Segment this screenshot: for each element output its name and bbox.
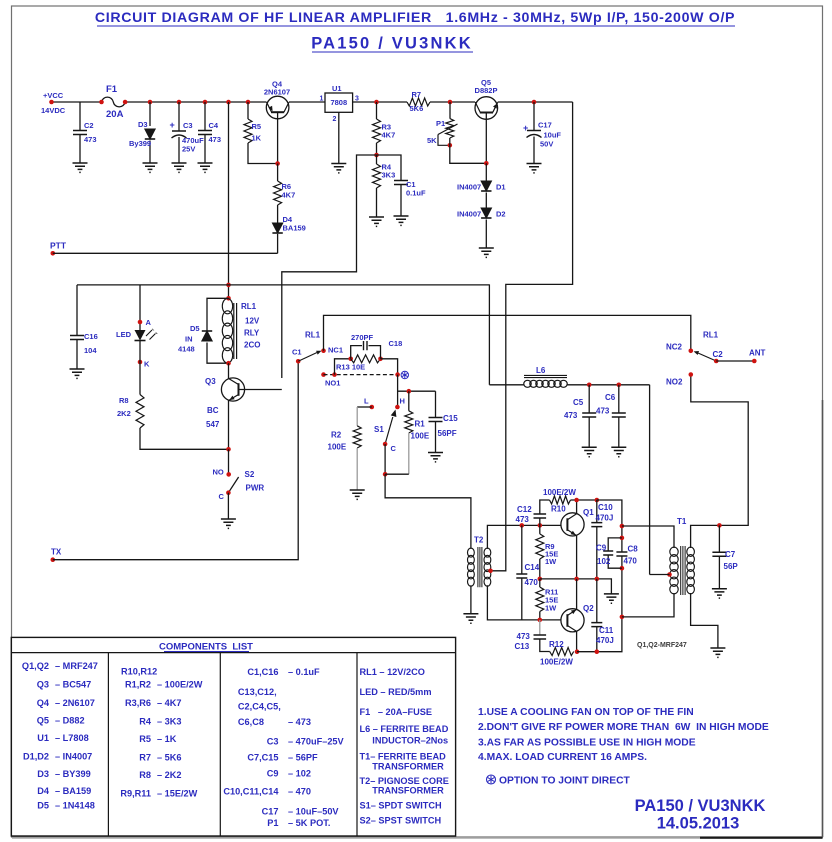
svg-text:4.MAX. LOAD CURRENT 16 AMPS.: 4.MAX. LOAD CURRENT 16 AMPS. — [478, 752, 647, 763]
wire to C5 — [588, 385, 590, 413]
wire C8 to T1 bottom branch — [621, 556, 623, 617]
wire rail to D3 — [149, 102, 151, 126]
svg-text:C7: C7 — [725, 550, 736, 559]
capacitor C15 — [429, 418, 443, 422]
diode D1 — [481, 181, 491, 191]
svg-text:T2: T2 — [474, 536, 484, 545]
table column 2 — [120, 666, 202, 798]
svg-text:56PF: 56PF — [438, 429, 457, 438]
wire to C7 — [718, 525, 720, 552]
junction — [203, 100, 208, 105]
svg-text:100E: 100E — [328, 443, 347, 452]
svg-text:D1: D1 — [496, 183, 506, 192]
wire R1 to bottom — [408, 433, 410, 474]
svg-text:100E: 100E — [411, 432, 430, 441]
wire L to R2 — [357, 406, 372, 408]
svg-text:470: 470 — [525, 578, 539, 587]
transistor Q3 — [221, 378, 244, 401]
svg-text:C13,C12,: C13,C12, — [238, 687, 277, 697]
wire C7 to ground — [718, 556, 720, 588]
svg-text:C: C — [219, 492, 225, 501]
svg-text:PA150 / VU3NKK: PA150 / VU3NKK — [311, 35, 473, 53]
svg-text:0.1uF: 0.1uF — [406, 189, 426, 198]
node C14 top — [520, 523, 525, 528]
node R13 right — [378, 357, 383, 362]
node Q4 base / R5 R6 — [275, 161, 280, 166]
potentiometer P1 — [438, 119, 458, 146]
wire T2 secondary bottom to Q2 base — [487, 585, 561, 620]
transistor Q2 — [561, 609, 584, 632]
wire R2 to ground — [356, 448, 358, 490]
svg-text:S2: S2 — [245, 470, 255, 479]
svg-text:C10,C11,C14: C10,C11,C14 — [223, 786, 279, 796]
svg-text:T2– PIGNOSE CORE: T2– PIGNOSE CORE — [360, 776, 449, 786]
wire Q3 emitter down — [228, 401, 230, 450]
capacitor C1 — [394, 181, 408, 185]
LED — [135, 328, 158, 340]
node mid rail C10/C11 — [595, 577, 600, 582]
svg-text:C3: C3 — [183, 121, 193, 130]
svg-text:By399: By399 — [129, 139, 151, 148]
node NO S2 — [226, 472, 231, 477]
svg-text:LED: LED — [116, 330, 132, 339]
svg-text:S1– SPDT SWITCH: S1– SPDT SWITCH — [360, 800, 443, 810]
svg-text:1.USE A COOLING FAN ON TOP OF: 1.USE A COOLING FAN ON TOP OF THE FIN — [478, 707, 694, 718]
junction — [226, 100, 231, 105]
transistor Q5 — [475, 97, 498, 164]
svg-text:– MRF247: – MRF247 — [55, 661, 98, 671]
junction option link — [332, 372, 337, 377]
svg-text:– L7808: – L7808 — [55, 733, 89, 743]
node C1 contact — [296, 359, 301, 364]
svg-text:IN4007: IN4007 — [457, 183, 481, 192]
svg-text:F1 – 20A–FUSE: F1 – 20A–FUSE — [360, 707, 433, 717]
wire C2 to ANT — [716, 360, 754, 362]
ground — [198, 163, 213, 172]
svg-text:C15: C15 — [443, 414, 458, 423]
wire to T1 primary top — [622, 526, 674, 548]
svg-text:5K6: 5K6 — [410, 104, 424, 113]
svg-text:Q2: Q2 — [583, 604, 594, 613]
resistor R9 — [536, 534, 544, 559]
wire S2 to ground — [227, 493, 229, 519]
svg-text:– BA159: – BA159 — [55, 786, 91, 796]
wire R7 to Q5 — [430, 101, 475, 103]
capacitor C11 — [591, 623, 602, 627]
wire R13 to star node — [381, 359, 398, 375]
svg-text:+: + — [523, 123, 528, 133]
node +VCC terminal — [49, 100, 54, 105]
svg-text:BA159: BA159 — [283, 224, 306, 233]
wire node to L6 feed — [229, 284, 490, 286]
svg-text:CIRCUIT DIAGRAM OF HF LINEAR A: CIRCUIT DIAGRAM OF HF LINEAR AMPLIFIER 1… — [95, 10, 735, 26]
svg-text:14VDC: 14VDC — [41, 106, 66, 115]
wire C2 to ground — [79, 135, 81, 164]
svg-text:R10,R12: R10,R12 — [121, 666, 157, 676]
svg-text:COMPONENTS LIST: COMPONENTS LIST — [159, 642, 253, 653]
node T1 primary top branch — [620, 524, 625, 529]
capacitor C5 — [582, 413, 596, 417]
wire C12 to R10 line — [540, 500, 550, 514]
svg-text:C10: C10 — [598, 503, 613, 512]
node star option — [395, 372, 400, 377]
ground — [394, 216, 409, 225]
capacitor C17 (electrolytic) — [527, 130, 541, 132]
svg-text:473: 473 — [209, 135, 222, 144]
svg-text:C6: C6 — [605, 393, 616, 402]
ground — [172, 163, 187, 172]
svg-text:R7: R7 — [412, 90, 422, 99]
svg-text:3.AS FAR AS POSSIBLE USE IN HI: 3.AS FAR AS POSSIBLE USE IN HIGH MODE — [478, 738, 696, 749]
wire to C13 — [539, 620, 541, 635]
components list table frame — [11, 637, 455, 836]
node ANT terminal — [752, 359, 757, 364]
wire base node to R6 — [277, 164, 279, 182]
wire C12 bottom — [539, 518, 541, 525]
wire C3 to ground — [178, 137, 180, 163]
svg-text:C16: C16 — [84, 332, 98, 341]
svg-text:100E/2W: 100E/2W — [543, 488, 576, 497]
node C6 — [617, 383, 622, 388]
wire fuse to Q4 — [125, 101, 266, 103]
svg-text:NO: NO — [213, 468, 224, 477]
option symbol (circled asterisk) — [401, 371, 408, 378]
switch S1 — [385, 410, 396, 445]
svg-text:R2: R2 — [331, 431, 342, 440]
node C2 contact — [714, 359, 719, 364]
capacitor C14 — [516, 574, 527, 578]
table column 4 — [360, 667, 449, 826]
wire to C10 — [596, 500, 598, 523]
svg-text:R7: R7 — [139, 752, 151, 762]
diode D4 — [272, 223, 282, 233]
wire node to C16 branch — [77, 284, 229, 286]
wire R8 to emitter node — [140, 428, 229, 449]
capacitor C10 — [591, 523, 602, 527]
svg-text:BC: BC — [207, 406, 219, 415]
svg-text:PWR: PWR — [246, 484, 265, 493]
svg-text:50V: 50V — [540, 140, 553, 149]
wire Q2 emitter to mid — [576, 579, 578, 610]
ground — [710, 648, 725, 657]
node P1 wiper — [448, 143, 453, 148]
svg-text:C1: C1 — [292, 348, 302, 357]
svg-text:100E/2W: 100E/2W — [540, 658, 573, 667]
svg-text:R1,R2: R1,R2 — [125, 680, 151, 690]
svg-text:U1: U1 — [332, 84, 342, 93]
relay contact arm 2 — [694, 351, 717, 361]
svg-text:TRANSFORMER: TRANSFORMER — [360, 761, 445, 771]
svg-text:H: H — [400, 397, 405, 406]
wire rail to R5 — [247, 102, 249, 119]
node C7 top — [717, 523, 722, 528]
svg-text:2CO: 2CO — [244, 341, 260, 350]
ground — [582, 447, 597, 456]
svg-text:R8: R8 — [139, 770, 151, 780]
svg-text:+VCC: +VCC — [43, 91, 64, 100]
wire down to C16 — [76, 285, 78, 336]
svg-text:T1– FERRITE BEAD: T1– FERRITE BEAD — [360, 752, 447, 762]
svg-text:D882P: D882P — [475, 86, 498, 95]
ground — [712, 589, 727, 598]
wire top to C8 branch — [597, 500, 622, 552]
ground — [428, 453, 443, 462]
svg-text:R10: R10 — [551, 505, 566, 514]
wire to R9 — [539, 525, 541, 534]
svg-text:– 470uF–25V: – 470uF–25V — [288, 736, 345, 746]
svg-text:D3: D3 — [37, 769, 49, 779]
capacitor C13 — [534, 635, 547, 639]
wire TX line to relay common C1 — [53, 361, 298, 559]
svg-text:R5: R5 — [252, 122, 262, 131]
svg-text:C4: C4 — [209, 121, 219, 130]
svg-text:1W: 1W — [545, 557, 557, 566]
svg-text:NC1: NC1 — [328, 346, 343, 355]
diode D3 — [145, 129, 155, 139]
junction — [99, 100, 104, 105]
svg-text:7808: 7808 — [330, 98, 347, 107]
wire rail to C17 — [533, 102, 535, 131]
svg-text:K: K — [144, 360, 150, 369]
node R1 top — [407, 389, 412, 394]
node T1 centre tap — [667, 572, 672, 577]
wire to R1 bottom — [385, 473, 409, 475]
svg-text:RL1: RL1 — [703, 331, 719, 340]
wire D4 to PTT line — [277, 234, 279, 253]
wire T2 secondary top to Q1 base — [487, 525, 561, 549]
capacitor C4 — [198, 131, 212, 135]
svg-text:C8: C8 — [628, 545, 639, 554]
svg-text:473: 473 — [564, 411, 578, 420]
ground — [70, 369, 85, 378]
resistor R4 — [373, 164, 381, 188]
wire L down to R2 — [356, 407, 358, 426]
capacitor C8 — [616, 552, 627, 556]
node S1 C / R1 — [383, 472, 388, 477]
diode D5 — [202, 331, 212, 341]
wire bottom rail to T1 branch — [577, 617, 622, 652]
diode D2 — [481, 208, 491, 218]
svg-text:ANT: ANT — [749, 349, 766, 358]
wire P1 to D1 node — [450, 138, 487, 163]
svg-text:D3: D3 — [138, 120, 148, 129]
svg-text:104: 104 — [84, 346, 97, 355]
wire C18 left — [351, 346, 362, 359]
wire feed to L6 — [489, 384, 524, 386]
wire to C15 — [435, 391, 437, 417]
wire to C6 — [618, 385, 620, 413]
svg-text:– 2K2: – 2K2 — [157, 770, 182, 780]
svg-text:PA150 / VU3NKK: PA150 / VU3NKK — [635, 797, 766, 815]
svg-text:LED – RED/5mm: LED – RED/5mm — [360, 687, 432, 697]
svg-text:L6: L6 — [536, 366, 546, 375]
svg-text:D4: D4 — [37, 786, 50, 796]
node R13 left — [348, 357, 353, 362]
table column 3 — [223, 667, 344, 828]
svg-text:C12: C12 — [517, 505, 532, 514]
wire C16 to ground — [76, 340, 78, 370]
svg-text:25V: 25V — [182, 145, 195, 154]
svg-text:270PF: 270PF — [351, 333, 374, 342]
junction — [246, 100, 251, 105]
ground — [611, 447, 626, 456]
wire R10 to Q1 collector node — [571, 499, 597, 501]
svg-text:R9,R11: R9,R11 — [120, 789, 151, 799]
svg-text:R1: R1 — [415, 420, 426, 429]
ground — [604, 594, 619, 603]
node L — [370, 405, 375, 410]
wire R9 to mid rail — [539, 559, 541, 579]
resistor R12 — [550, 648, 574, 656]
svg-text:– IN4007: – IN4007 — [55, 752, 92, 762]
node Q1 collector — [574, 498, 579, 503]
svg-text:3K3: 3K3 — [382, 171, 396, 180]
svg-text:– 3K3: – 3K3 — [157, 717, 182, 727]
svg-text:D5: D5 — [190, 324, 200, 333]
node C10 top — [595, 498, 600, 503]
svg-text:NO1: NO1 — [325, 379, 340, 388]
wire Q1 emitter to mid — [576, 536, 578, 579]
capacitor C3 (electrolytic) — [172, 130, 186, 132]
wire R3 to divider node — [376, 143, 378, 155]
node NO2 — [689, 372, 694, 377]
relay RL1 coil — [222, 299, 236, 363]
notes text — [478, 707, 769, 763]
wire node to D1 — [485, 163, 487, 181]
svg-text:– BY399: – BY399 — [55, 769, 91, 779]
wire C9 bottom loop — [608, 555, 622, 568]
svg-text:R3,R6: R3,R6 — [125, 698, 151, 708]
svg-text:C3: C3 — [267, 736, 279, 746]
wire C14 top — [521, 525, 523, 574]
resistor R6 — [274, 181, 282, 205]
ground — [463, 614, 478, 623]
svg-text:1W: 1W — [545, 604, 557, 613]
wire U1 pin2 to ground — [338, 112, 340, 163]
svg-text:C2,C4,C5,: C2,C4,C5, — [238, 702, 281, 712]
wire 14V feed down to L6 — [488, 284, 490, 384]
svg-text:INDUCTOR–2Nos: INDUCTOR–2Nos — [360, 736, 449, 746]
wire C10 to mid rail — [596, 527, 598, 579]
svg-text:– 102: – 102 — [288, 769, 311, 779]
svg-text:A: A — [146, 318, 152, 327]
svg-text:C7,C15: C7,C15 — [247, 752, 278, 762]
wire rail to C4 — [204, 102, 206, 131]
wire L6 output down — [649, 385, 651, 575]
svg-text:R8: R8 — [119, 396, 129, 405]
transformer T1 — [670, 546, 695, 595]
junction — [177, 100, 182, 105]
svg-text:470J: 470J — [596, 514, 614, 523]
resistor R2 — [353, 426, 361, 448]
node NC1 — [321, 348, 326, 353]
capacitor C7 — [712, 552, 726, 556]
fuse F1 — [102, 97, 126, 107]
ground — [143, 163, 158, 172]
wire Q5 output to T2 centre tap — [491, 102, 573, 571]
wire C9 top loop — [608, 538, 622, 551]
svg-text:102: 102 — [597, 557, 611, 566]
svg-text:2N6107: 2N6107 — [264, 88, 290, 97]
wire star node to H contact — [397, 375, 399, 407]
wire Q5 to corner — [498, 101, 573, 103]
svg-text:NC2: NC2 — [666, 343, 683, 352]
svg-text:D5: D5 — [37, 800, 49, 810]
wire L6 feed to tap — [650, 574, 670, 576]
svg-text:D1,D2: D1,D2 — [23, 752, 49, 762]
svg-text:– 56PF: – 56PF — [288, 752, 318, 762]
svg-text:4K7: 4K7 — [382, 131, 396, 140]
wire rail to P1 — [449, 102, 451, 119]
switch S2 — [228, 477, 238, 493]
resistor R13 — [351, 355, 381, 363]
wire L6 to output node — [567, 384, 650, 386]
svg-text:D2: D2 — [496, 210, 506, 219]
svg-text:56P: 56P — [724, 562, 739, 571]
node A — [138, 320, 143, 325]
inductor L6 — [524, 375, 567, 387]
svg-text:F1: F1 — [106, 84, 118, 95]
ground — [479, 248, 494, 257]
wire T1 secondary top to NO2 — [691, 375, 749, 549]
wire C11 to bottom rail — [596, 627, 598, 652]
wire rail down to relay — [228, 102, 230, 298]
node NC2 — [689, 349, 694, 354]
node NO1 — [321, 372, 326, 377]
node K — [138, 360, 143, 365]
svg-text:TX: TX — [51, 548, 62, 557]
capacitor C16 — [70, 336, 84, 340]
svg-text:RL1 – 12V/2CO: RL1 – 12V/2CO — [360, 667, 425, 677]
wire Q2 collector down — [576, 631, 578, 651]
node T2 centre tap — [488, 569, 493, 574]
svg-text:20A: 20A — [106, 109, 124, 120]
capacitor C18 — [364, 341, 368, 350]
junction — [532, 100, 537, 105]
svg-text:C2: C2 — [84, 121, 94, 130]
svg-text:12V: 12V — [245, 317, 260, 326]
junction — [574, 577, 579, 582]
wire PTT line — [53, 252, 278, 254]
svg-text:C9: C9 — [267, 769, 279, 779]
option note symbol — [487, 775, 631, 786]
relay contact arm 1 — [298, 351, 321, 362]
node C S2 — [226, 490, 231, 495]
svg-text:IN4007: IN4007 — [457, 210, 481, 219]
svg-text:Q3: Q3 — [37, 680, 49, 690]
svg-text:– D882: – D882 — [55, 716, 85, 726]
junction — [148, 100, 153, 105]
svg-text:Q1,Q2: Q1,Q2 — [22, 661, 49, 671]
svg-text:Q5: Q5 — [37, 716, 49, 726]
svg-text:2K2: 2K2 — [117, 409, 131, 418]
wire C1 to ground — [400, 185, 402, 217]
node C S1 — [383, 442, 388, 447]
ground — [331, 164, 346, 173]
svg-text:– 15E/2W: – 15E/2W — [157, 789, 198, 799]
wire S1 C down — [384, 444, 386, 474]
wire D5 to coil bottom — [207, 343, 229, 364]
transformer T2 — [468, 547, 491, 587]
wire rail to R3 — [376, 102, 378, 119]
capacitor C6 — [612, 413, 626, 417]
wire U1 pin3 to R7 — [353, 101, 407, 103]
svg-text:547: 547 — [206, 420, 220, 429]
node Q5 base / P1 / D1 — [484, 161, 489, 166]
resistor R5 — [244, 119, 252, 143]
node R9/R11 mid — [538, 577, 543, 582]
wire mid rail to ground — [540, 579, 612, 594]
